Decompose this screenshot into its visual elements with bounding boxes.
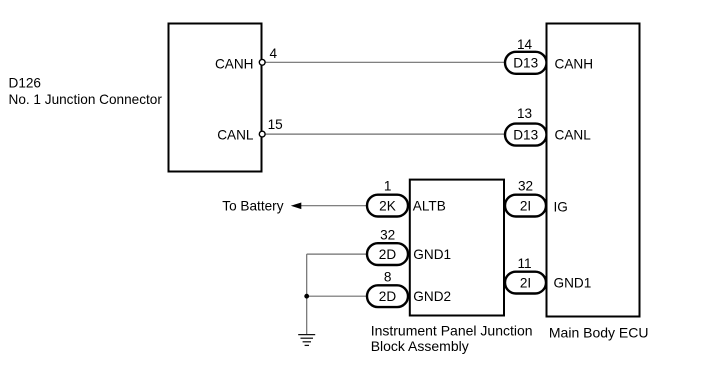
svg-text:CANH: CANH	[555, 56, 594, 71]
svg-text:CANL: CANL	[555, 128, 592, 143]
svg-text:11: 11	[517, 256, 531, 271]
svg-text:No. 1 Junction Connector: No. 1 Junction Connector	[9, 92, 163, 107]
wire GND1 to ground	[307, 253, 367, 255]
svg-text:GND2: GND2	[413, 289, 451, 304]
Main Body ECU box	[547, 24, 640, 317]
connector D13 (CANL)	[505, 124, 547, 146]
svg-text:15: 15	[268, 117, 283, 132]
connector 2I (GND1)	[505, 272, 546, 294]
connector D13 (CANH)	[505, 52, 547, 74]
svg-text:32: 32	[518, 179, 533, 194]
arrowhead to battery	[291, 203, 302, 210]
pin 15 circle (D126)	[259, 131, 265, 137]
svg-text:Instrument Panel Junction: Instrument Panel Junction	[371, 322, 533, 338]
Instrument Panel Junction Block Assembly box	[410, 180, 504, 316]
svg-text:32: 32	[380, 228, 395, 243]
svg-text:4: 4	[270, 46, 278, 61]
junction dot	[304, 294, 309, 299]
svg-text:2D: 2D	[379, 289, 397, 304]
svg-text:14: 14	[517, 37, 533, 52]
svg-text:D13: D13	[513, 56, 538, 71]
svg-text:2K: 2K	[379, 198, 396, 213]
svg-text:GND1: GND1	[413, 247, 451, 262]
svg-text:IG: IG	[554, 199, 568, 214]
connector 2D (GND2)	[367, 285, 408, 307]
svg-text:8: 8	[384, 270, 392, 285]
svg-text:CANL: CANL	[217, 128, 254, 143]
wire CANL	[265, 133, 505, 135]
wire CANH	[265, 61, 505, 63]
pin 4 circle (D126)	[259, 59, 265, 65]
wire GND2 to ground	[307, 295, 367, 297]
svg-text:2D: 2D	[379, 247, 397, 262]
svg-text:Main Body ECU: Main Body ECU	[549, 325, 649, 341]
svg-text:13: 13	[517, 106, 532, 121]
svg-text:To Battery: To Battery	[222, 198, 283, 213]
connector 2K (ALTB)	[367, 195, 408, 217]
svg-text:1: 1	[384, 179, 392, 194]
svg-text:2I: 2I	[520, 198, 531, 213]
connector 2I (IG)	[505, 195, 546, 217]
svg-text:2I: 2I	[520, 275, 531, 290]
svg-text:D126: D126	[9, 76, 42, 91]
connector D126 box (No. 1 Junction Connector)	[169, 24, 262, 172]
svg-text:D13: D13	[513, 127, 538, 142]
svg-text:CANH: CANH	[215, 56, 254, 71]
svg-text:Block Assembly: Block Assembly	[371, 338, 469, 354]
wire ground vertical	[306, 254, 308, 335]
ground symbol	[298, 335, 315, 346]
wire To Battery	[301, 205, 368, 207]
svg-text:ALTB: ALTB	[413, 198, 446, 213]
connector 2D (GND1)	[367, 243, 408, 265]
svg-text:GND1: GND1	[554, 275, 592, 290]
